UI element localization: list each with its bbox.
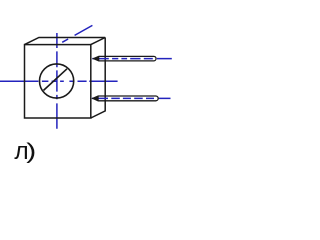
pin 2 body (bottom lead): [93, 96, 158, 101]
box front face: [25, 45, 91, 118]
diagonal axis centerline on top face: [62, 25, 92, 42]
pin 1 centerline (top lead): [92, 58, 172, 60]
svg-text:): ): [26, 138, 36, 163]
slot diagonal in hole: [44, 69, 68, 91]
pin 2 centerline (bottom lead): [92, 97, 171, 99]
pin 1 body (top lead): [94, 56, 156, 61]
vertical centerline of hole: [56, 33, 58, 129]
horizontal centerline of hole: [0, 80, 118, 82]
box right face edges: [91, 38, 105, 119]
box top face edges: [25, 38, 106, 45]
hole circle on front face: [40, 64, 74, 98]
pin 1 tip wedge (top lead): [93, 56, 99, 62]
pin 2 tip wedge (bottom lead): [93, 96, 99, 102]
